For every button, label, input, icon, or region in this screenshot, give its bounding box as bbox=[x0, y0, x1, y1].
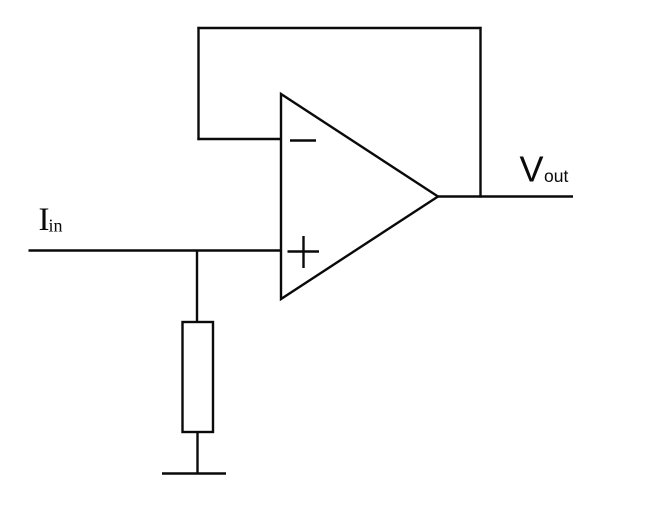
svg-text:V: V bbox=[520, 149, 544, 190]
svg-text:out: out bbox=[544, 166, 568, 186]
wire input Iin bbox=[29, 249, 282, 251]
label Iin bbox=[39, 202, 63, 238]
inverting input minus sign bbox=[290, 139, 316, 141]
non-inverting input plus sign bbox=[288, 236, 320, 268]
op-amp U1 bbox=[281, 94, 438, 299]
wire output bbox=[438, 195, 573, 197]
resistor R1 body bbox=[183, 322, 214, 432]
svg-text:in: in bbox=[49, 216, 63, 236]
wire feedback top bbox=[197, 27, 481, 29]
wire feedback left vertical bbox=[197, 27, 199, 140]
wire feedback right vertical bbox=[479, 27, 481, 198]
label Vout bbox=[520, 149, 569, 190]
wire resistor to ground bbox=[196, 432, 198, 473]
ground bbox=[162, 472, 226, 474]
wire feedback to inverting input bbox=[197, 138, 282, 140]
node junction input/resistor bbox=[196, 251, 198, 323]
